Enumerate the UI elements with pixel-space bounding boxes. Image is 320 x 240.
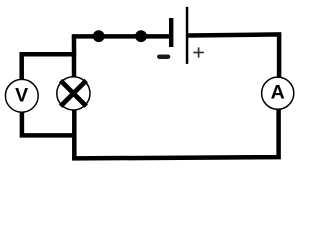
svg-text:A: A <box>271 82 285 104</box>
node junction dot right <box>135 30 147 42</box>
wire: voltmeter top branch (up from voltmeter, right to lamp wire) <box>22 54 76 80</box>
voltmeter V1 circle <box>5 79 38 112</box>
wire: battery positive to top-right corner, down to ammeter <box>188 34 279 78</box>
wire: top horizontal to battery negative <box>74 36 169 38</box>
wire: lamp top vertical <box>72 36 77 77</box>
wire: voltmeter bottom branch <box>22 112 77 136</box>
svg-text:V: V <box>15 84 28 106</box>
battery B1 negative plate (short) <box>169 18 173 47</box>
battery B1 positive plate (long) <box>186 7 189 64</box>
battery minus label <box>159 54 168 59</box>
node junction dot left <box>93 30 105 42</box>
lamp L1 circle <box>57 77 90 110</box>
ammeter A1 circle <box>262 77 294 109</box>
battery plus label <box>193 47 203 57</box>
lamp L1 cross <box>61 81 87 107</box>
wire: ammeter bottom, bottom horizontal, up lamp bottom vertical <box>74 109 278 159</box>
